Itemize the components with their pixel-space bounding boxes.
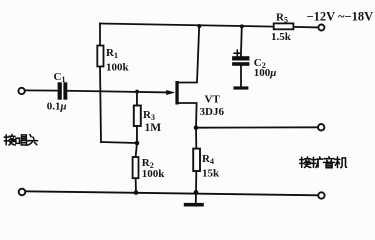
wire ground stub [195,192,197,203]
wire C2 top lead [240,26,243,56]
char yin [324,157,335,168]
polarity plus of C2 [234,50,240,56]
label R4 [202,153,214,166]
value 0.1u [47,100,67,112]
resistor R5 [274,23,294,29]
value 100u [254,67,277,79]
char tou [27,135,38,146]
node R4/ground on bottom wire dot [194,190,199,195]
label R5 [276,11,288,24]
svg-text:R3: R3 [143,109,155,122]
label C1 [54,71,66,84]
wire input to C1 [25,89,58,91]
ground of C2 [233,86,248,89]
node R3/R2/bypass junction dot [135,141,140,146]
value 1M [145,122,162,134]
char jie2 [300,157,311,168]
node R2 on bottom wire dot [134,190,139,195]
value 100k [142,168,166,180]
transistor VT drain lead [179,26,200,82]
label -12V ~ -18V [307,10,374,24]
wire R1 top lead from rail corner [99,24,101,46]
wire rail to power terminal [293,26,318,29]
svg-text:100k: 100k [142,168,166,180]
value 1.5k [271,31,292,43]
svg-text:100k: 100k [106,62,130,74]
wire R3 bottom lead [136,126,138,143]
input terminal top [18,88,24,94]
char ji [335,157,346,168]
svg-text:1.5k: 1.5k [271,31,292,43]
wire output top [196,126,318,128]
wire C2 bottom lead [240,66,242,87]
svg-text:VT: VT [205,94,221,106]
char chang [16,135,27,145]
wire R2 top lead [136,143,137,157]
wire bottom common [26,191,319,195]
capacitor C2 [232,56,249,66]
wire R4 bottom lead [195,171,197,192]
char jie [4,134,15,145]
power terminal [318,25,324,31]
svg-text:100μ: 100μ [254,67,277,79]
gate arrowhead [166,90,175,95]
wire R3 top lead [136,92,138,106]
svg-text:R5: R5 [276,11,288,24]
svg-text:R4: R4 [202,153,214,166]
transistor VT channel bar [175,81,178,105]
label R3 [143,109,155,122]
wire top supply rail left segment [100,24,274,27]
input terminal bottom [19,189,26,196]
output terminal bottom [318,192,324,198]
wire signal C1 to gate [67,91,167,93]
label VT [205,94,221,106]
label R2 [142,157,154,170]
wire feedback bypass horizontal to R2/R3 junction [101,142,137,143]
svg-text:−12V ~−18V: −12V ~−18V [307,10,374,24]
wire source to R4 [195,128,197,149]
node drain on rail dot [197,24,201,28]
char kuo [312,157,323,168]
node source/output junction dot [194,125,199,130]
value 100k [106,62,130,74]
value 15k [202,167,220,179]
label jie-kuo-yin-ji (connect amplifier) [300,157,347,168]
resistor R4 [193,149,200,171]
svg-text:3DJ6: 3DJ6 [200,106,225,118]
resistor R3 [134,106,141,127]
resistor R2 [133,157,139,178]
resistor R1 [97,46,103,67]
svg-text:15k: 15k [202,167,220,179]
wire R1 bottom lead down across signal wire [100,67,101,143]
svg-text:1M: 1M [145,122,162,134]
transistor VT source lead [179,103,197,128]
svg-text:C1: C1 [54,71,66,84]
label jie-chang-tou (connect pickup head) [4,134,37,145]
svg-text:R1: R1 [106,47,118,60]
node gate/R3 junction dot [135,90,139,94]
label 3DJ6 [200,106,225,118]
label R1 [106,47,118,60]
label C2 [254,57,266,70]
node C2 on rail dot [240,24,244,28]
ground main [184,203,204,207]
wire R2 bottom lead [135,178,137,192]
output terminal top [318,124,324,130]
svg-text:0.1μ: 0.1μ [47,100,67,112]
capacitor C1 [58,82,68,99]
